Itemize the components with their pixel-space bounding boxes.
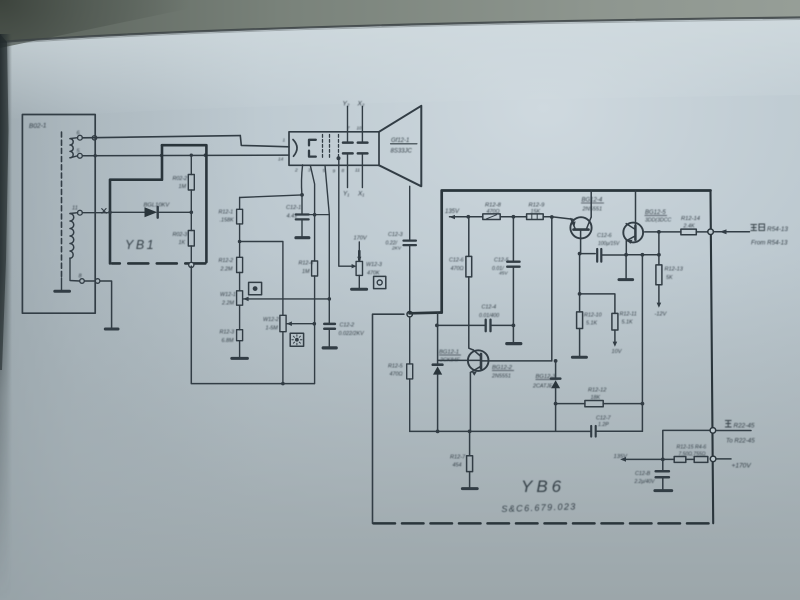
svg-text:R02-3: R02-3 bbox=[173, 232, 188, 238]
svg-text:8: 8 bbox=[342, 168, 345, 174]
svg-text:2.2μ/40V: 2.2μ/40V bbox=[634, 479, 656, 485]
svg-text:R12-10: R12-10 bbox=[584, 313, 602, 319]
svg-text:From R54-13: From R54-13 bbox=[751, 240, 788, 247]
svg-text:470Ω: 470Ω bbox=[487, 209, 500, 215]
svg-text:1.2P: 1.2P bbox=[598, 422, 609, 428]
svg-text:1M: 1M bbox=[179, 184, 187, 190]
svg-text:7: 7 bbox=[347, 126, 350, 131]
svg-text:R12-11: R12-11 bbox=[620, 312, 637, 318]
svg-text:1-5M: 1-5M bbox=[266, 326, 279, 332]
svg-text:6.8M: 6.8M bbox=[222, 338, 234, 344]
svg-text:C12-6: C12-6 bbox=[597, 233, 612, 239]
svg-text:7.50Ω,755Ω: 7.50Ω,755Ω bbox=[679, 452, 706, 458]
svg-text:2CATJE: 2CATJE bbox=[532, 384, 553, 390]
svg-text:R12-13: R12-13 bbox=[665, 267, 684, 273]
svg-text:15K: 15K bbox=[531, 209, 541, 215]
svg-text:5.1K: 5.1K bbox=[586, 321, 597, 327]
svg-text:YB6: YB6 bbox=[521, 477, 565, 496]
svg-text:R12-3: R12-3 bbox=[220, 330, 235, 336]
svg-text:5K: 5K bbox=[666, 275, 673, 281]
svg-text:.158K: .158K bbox=[220, 218, 234, 224]
svg-text:0.01/400: 0.01/400 bbox=[479, 313, 499, 319]
svg-text:Gf12-1: Gf12-1 bbox=[391, 138, 409, 144]
svg-text:135V: 135V bbox=[445, 209, 460, 215]
svg-text:11: 11 bbox=[72, 206, 78, 212]
svg-text:BGL10KV: BGL10KV bbox=[144, 203, 171, 209]
svg-text:+170V: +170V bbox=[732, 463, 752, 470]
svg-text:5: 5 bbox=[323, 168, 326, 174]
svg-text:2.4K: 2.4K bbox=[683, 224, 695, 230]
svg-text:R12-4: R12-4 bbox=[299, 261, 314, 267]
svg-text:YB1: YB1 bbox=[125, 238, 156, 252]
svg-text:C12-3: C12-3 bbox=[388, 232, 403, 238]
svg-text:R12-12: R12-12 bbox=[588, 388, 607, 394]
svg-text:4.41: 4.41 bbox=[287, 214, 298, 220]
svg-text:C12-1: C12-1 bbox=[286, 205, 301, 211]
svg-text:2.2M: 2.2M bbox=[221, 301, 234, 307]
svg-text:3DD(3DCC: 3DD(3DCC bbox=[645, 218, 671, 224]
svg-text:W12-3: W12-3 bbox=[366, 262, 382, 268]
svg-text:2N5551: 2N5551 bbox=[491, 374, 511, 380]
svg-text:Y₂: Y₂ bbox=[343, 101, 350, 108]
svg-text:R12-8: R12-8 bbox=[485, 203, 502, 209]
svg-text:5.1K: 5.1K bbox=[622, 320, 633, 326]
svg-text:100μ/15V: 100μ/15V bbox=[598, 241, 620, 247]
svg-text:R54-13: R54-13 bbox=[767, 226, 788, 233]
svg-text:1M: 1M bbox=[302, 269, 310, 275]
svg-text:B02-1: B02-1 bbox=[29, 122, 47, 130]
svg-text:2CK84F: 2CK84F bbox=[439, 358, 460, 364]
svg-text:C12-6: C12-6 bbox=[449, 258, 464, 264]
svg-text:470K: 470K bbox=[367, 271, 380, 277]
svg-text:R12-7: R12-7 bbox=[450, 455, 466, 461]
svg-text:1K: 1K bbox=[179, 240, 186, 246]
svg-text:R12-9: R12-9 bbox=[529, 203, 546, 209]
svg-text:C12-B: C12-B bbox=[635, 471, 651, 477]
svg-text:10V: 10V bbox=[612, 349, 623, 355]
svg-text:2.2M: 2.2M bbox=[220, 267, 233, 273]
svg-text:2KV: 2KV bbox=[391, 246, 402, 252]
svg-text:45V: 45V bbox=[499, 271, 508, 277]
svg-text:470Ω: 470Ω bbox=[451, 266, 464, 272]
svg-text:R12-5: R12-5 bbox=[388, 364, 404, 370]
svg-text:8S33JC: 8S33JC bbox=[391, 149, 413, 155]
svg-text:R02-2: R02-2 bbox=[173, 176, 188, 182]
svg-text:170V: 170V bbox=[354, 236, 368, 242]
svg-text:X₁: X₁ bbox=[357, 191, 364, 198]
svg-text:11: 11 bbox=[355, 168, 360, 174]
svg-text:2: 2 bbox=[294, 168, 298, 174]
svg-text:-12V: -12V bbox=[655, 312, 668, 318]
svg-text:470Ω: 470Ω bbox=[390, 372, 403, 378]
svg-text:C12-2: C12-2 bbox=[340, 323, 355, 329]
svg-text:14: 14 bbox=[278, 157, 284, 163]
svg-text:9: 9 bbox=[333, 169, 336, 175]
svg-text:2N5551: 2N5551 bbox=[582, 207, 603, 213]
svg-text:C12-7: C12-7 bbox=[596, 416, 612, 422]
svg-text:10: 10 bbox=[357, 126, 363, 131]
svg-text:R22-45: R22-45 bbox=[734, 423, 755, 430]
svg-text:R12-2: R12-2 bbox=[219, 258, 234, 264]
svg-text:1: 1 bbox=[283, 138, 286, 144]
svg-text:C12-5: C12-5 bbox=[494, 258, 510, 264]
svg-text:18K: 18K bbox=[591, 395, 601, 401]
svg-text:Y₁: Y₁ bbox=[343, 191, 349, 198]
svg-text:W12-2: W12-2 bbox=[263, 317, 279, 323]
svg-text:3: 3 bbox=[308, 168, 311, 174]
svg-text:R12-15 R4-6: R12-15 R4-6 bbox=[677, 445, 707, 451]
svg-text:To R22-45: To R22-45 bbox=[726, 438, 755, 445]
svg-text:R12-1: R12-1 bbox=[219, 210, 234, 216]
svg-text:W12-1: W12-1 bbox=[220, 292, 236, 298]
svg-text:135V: 135V bbox=[614, 454, 629, 460]
svg-text:454: 454 bbox=[453, 463, 462, 469]
svg-text:R12-14: R12-14 bbox=[681, 216, 700, 222]
svg-text:X₂: X₂ bbox=[357, 101, 365, 108]
svg-text:C12-4: C12-4 bbox=[482, 305, 497, 311]
svg-text:0.022/2KV: 0.022/2KV bbox=[339, 331, 366, 337]
